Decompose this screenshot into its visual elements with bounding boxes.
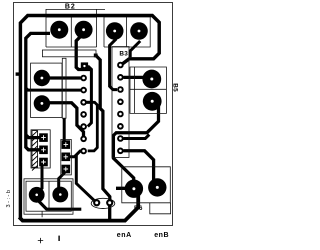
wire ring8L to strip pad2 — [66, 151, 85, 157]
hatched tab bar — [32, 131, 38, 171]
pad row B — [34, 95, 50, 111]
wire junction down to ring pad J1 — [76, 155, 96, 203]
trace B branch to pad row — [26, 135, 40, 138]
header B3 ring pads — [117, 62, 124, 154]
pad B5-1 — [142, 70, 161, 89]
left header ring pads — [80, 75, 87, 155]
pad P4 — [130, 22, 148, 40]
pad P1 — [50, 21, 68, 39]
wire S1 right down to ring5 — [88, 66, 92, 127]
pad B5-2 — [143, 92, 162, 111]
relay B5 outline box — [130, 67, 166, 113]
wire B3 pin7 tie — [123, 135, 149, 139]
plus mark — [38, 238, 43, 243]
resistor outline flat box — [42, 50, 96, 57]
stub pad near B3 top — [94, 54, 98, 58]
wire big pads bottom link — [38, 200, 82, 209]
wire stub ring3 — [86, 101, 91, 104]
ring pad J2 — [106, 199, 113, 206]
via nub on left trace — [16, 72, 19, 75]
svg-text:enB: enB — [154, 232, 169, 239]
square pads left strip — [39, 133, 48, 166]
svg-text:B5: B5 — [171, 83, 178, 92]
square pads right strip with box — [61, 140, 72, 175]
svg-text:B3: B3 — [119, 51, 128, 58]
wire row pad B diagonal to ring6 — [50, 103, 84, 137]
wire B3 pin2 to B5 pad1 — [124, 76, 144, 79]
board outline border — [14, 3, 173, 226]
wire ring3 to ring8 via x97 — [86, 102, 97, 151]
wire B6 pad1 left — [116, 187, 134, 190]
svg-text:B6: B6 — [134, 205, 143, 212]
wire diode bottom to strip padR1 — [63, 119, 66, 142]
pad BL1 — [29, 187, 45, 203]
relay B2 outline box — [46, 9, 105, 47]
tick mark — [58, 236, 59, 241]
trace A: main loop top/left/right — [20, 16, 159, 219]
relay B4 outline box — [104, 17, 150, 47]
trace A: bottom ground rail — [19, 194, 138, 221]
trace B branch middle to ring2 — [26, 88, 81, 90]
wire pad P3 to B3 pin3 — [110, 39, 117, 90]
diode outline narrow box — [62, 58, 66, 118]
wire B3 pin8 to B6 pad2 — [123, 151, 157, 183]
pad P3 — [106, 22, 124, 40]
pad B6-2 — [148, 178, 166, 196]
trace B: left inner feed — [26, 33, 50, 149]
wire pad P4 down to trace A — [130, 41, 140, 57]
bottom left outline boxes — [24, 179, 73, 214]
relay B6 outline box — [122, 167, 171, 214]
pad S1 square pin1 — [81, 62, 88, 69]
wire strip pad3L down to big pad — [37, 166, 42, 193]
svg-text:3-:-b: 3-:-b — [6, 188, 12, 207]
svg-text:enA: enA — [117, 232, 132, 239]
pad P2 — [75, 21, 93, 39]
jumper outline ellipse — [91, 198, 115, 208]
pad B6-1 — [125, 180, 143, 198]
wire strip pad3R down to big pad — [59, 173, 65, 194]
ring pad J1 — [93, 199, 100, 206]
wire long middle vertical to bottom ring pad — [96, 55, 110, 200]
wire pad P2 down to S1 — [76, 36, 91, 69]
power part outline box with hatch — [31, 130, 50, 168]
header B3 outline box — [112, 47, 129, 158]
wire B5 pad2 to B6 pad1 — [113, 106, 158, 185]
wire row pad A to ring1 — [50, 76, 81, 79]
pad BL2 — [52, 187, 68, 203]
wire bottom ring pad2 down to rail — [108, 205, 111, 220]
relay second row outline box — [31, 63, 62, 117]
pad row A — [34, 70, 50, 86]
